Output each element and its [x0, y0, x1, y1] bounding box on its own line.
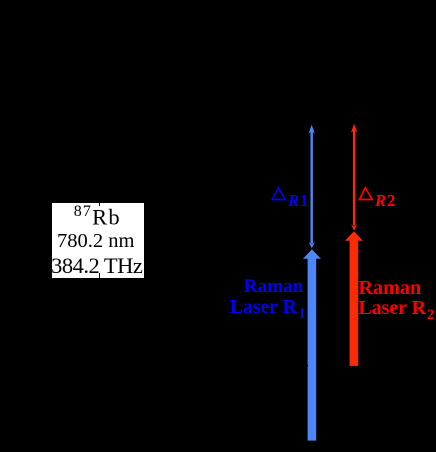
node tick top of box [99, 202, 101, 206]
thin blue detuning double arrow [309, 125, 315, 249]
label Raman Laser R2 [358, 277, 421, 300]
thick blue Raman laser R1 arrow [303, 249, 321, 440]
label Raman Laser R1 [244, 276, 303, 298]
level line tick on blue shaft [306, 365, 308, 367]
label Laser R2 line2 [358, 297, 434, 320]
label 384.2 THz [51, 253, 143, 278]
thick red Raman laser R2 arrow [345, 231, 363, 366]
label Delta R2 (red detuning) [358, 186, 375, 202]
label Laser R1 line2 [230, 296, 306, 319]
node tick bottom of box [99, 273, 101, 278]
thin red detuning double arrow [351, 124, 357, 231]
white info box [52, 203, 144, 279]
label Delta R1 (blue detuning) [271, 186, 288, 202]
label 87Rb [52, 199, 144, 230]
label 780.2 nm [50, 229, 142, 254]
